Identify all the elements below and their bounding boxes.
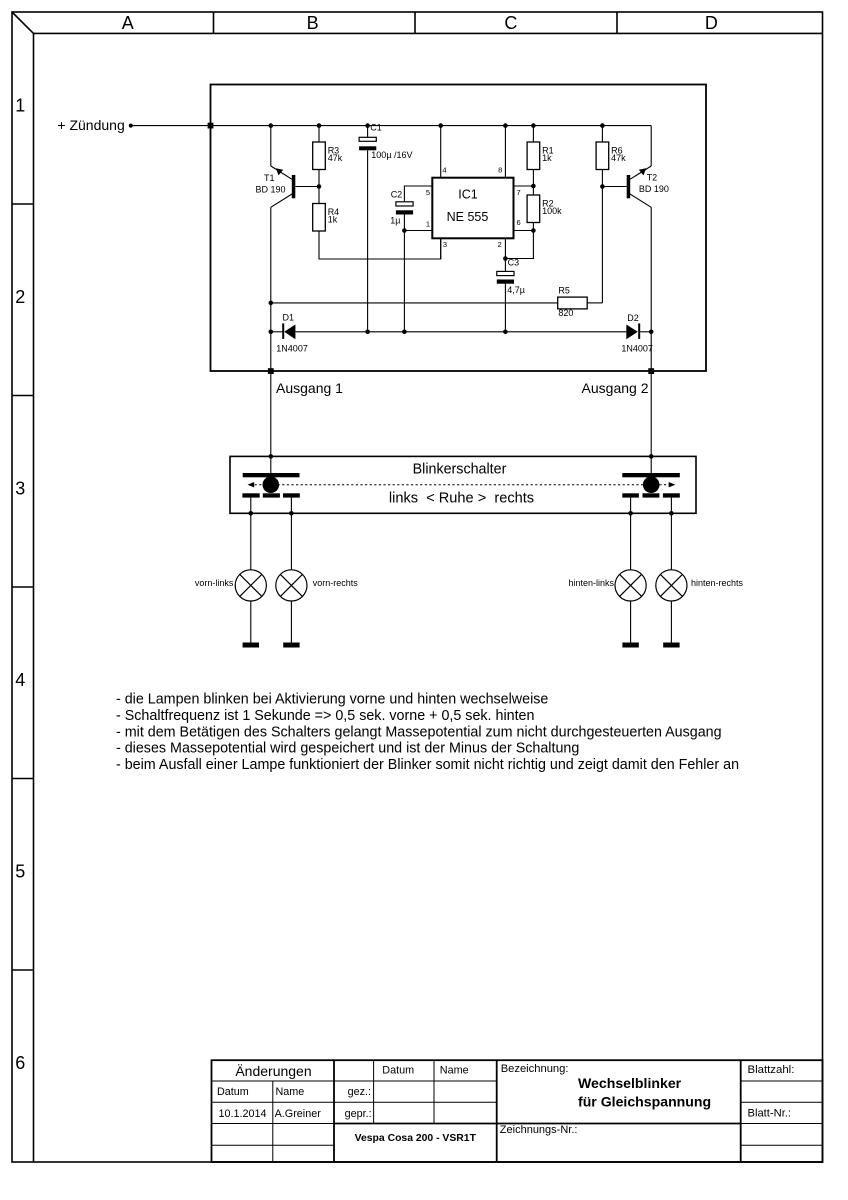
wire lamp2 to ground [290, 601, 292, 643]
resistor R4 [313, 204, 326, 232]
wire pin1 to C2 column [404, 230, 432, 232]
junction dots on ground return rail [269, 330, 654, 335]
lamp hinten-rechts [656, 570, 687, 601]
svg-text:R5: R5 [558, 286, 570, 296]
ground vorn-links [243, 643, 259, 648]
wire lamp4 to ground [670, 601, 672, 643]
svg-text:5: 5 [15, 862, 25, 882]
switch left common contact [243, 456, 300, 493]
wire R5 to T2 base column [587, 302, 602, 304]
diode D2 [626, 323, 640, 339]
svg-text:- dieses Massepotential wird g: - dieses Massepotential wird gespeichert… [116, 741, 579, 757]
svg-text:D: D [705, 13, 718, 33]
wire R4 to pin3 [319, 231, 441, 259]
svg-text:hinten-links: hinten-links [568, 578, 614, 588]
wire rail to R3 [318, 126, 320, 142]
wire switch to lamp vorn-rechts [290, 498, 292, 570]
svg-text:C: C [504, 13, 517, 33]
svg-text:47k: 47k [328, 153, 343, 163]
arrow left (links) [248, 482, 255, 487]
svg-text:1k: 1k [328, 214, 338, 224]
wire R2 bottom to C3 node [505, 223, 533, 259]
junction R5 tap on T1 collector [269, 301, 274, 306]
svg-text:vorn-links: vorn-links [195, 578, 234, 588]
svg-text:hinten-rechts: hinten-rechts [691, 578, 744, 588]
svg-text:8: 8 [498, 165, 502, 174]
svg-text:Name: Name [440, 1065, 469, 1077]
capacitor C2 [396, 186, 432, 332]
svg-text:gepr.:: gepr.: [345, 1108, 372, 1120]
svg-text:1µ: 1µ [390, 215, 400, 225]
wire pin 3 down [440, 238, 442, 259]
arrow right (rechts) [669, 482, 676, 487]
svg-text:für Gleichspannung: für Gleichspannung [578, 1094, 711, 1110]
svg-text:gez.:: gez.: [348, 1086, 371, 1098]
svg-text:- mit dem Betätigen des Schalt: - mit dem Betätigen des Schalters gelang… [116, 724, 722, 740]
svg-text:47k: 47k [611, 153, 626, 163]
svg-text:C2: C2 [391, 190, 403, 200]
svg-text:A: A [122, 13, 134, 33]
svg-text:2: 2 [498, 240, 502, 249]
resistor R3 [313, 142, 326, 170]
svg-text:D1: D1 [283, 312, 295, 322]
wire ground return rail [271, 331, 283, 333]
wire T1 collector down to switch [270, 207, 272, 456]
junction T2 base node [600, 184, 605, 189]
svg-text:Vespa Cosa 200 - VSR1T: Vespa Cosa 200 - VSR1T [355, 1133, 477, 1144]
svg-text:C1: C1 [370, 122, 382, 132]
svg-text:1k: 1k [542, 153, 552, 163]
op-amp/timer IC1 [432, 178, 513, 239]
junction pin1/C2 [402, 228, 407, 233]
svg-text:Datum: Datum [382, 1065, 414, 1077]
junction square Ausgang 2 at box edge [648, 368, 654, 374]
wire supply rail [211, 125, 652, 127]
svg-text:NE 555: NE 555 [447, 210, 489, 224]
junction dots on supply rail [269, 123, 605, 128]
switch right common contact [622, 456, 680, 493]
title block [212, 1060, 823, 1162]
svg-text:1: 1 [15, 95, 25, 115]
svg-text:Ausgang 2: Ausgang 2 [582, 380, 649, 396]
svg-text:vorn-rechts: vorn-rechts [313, 578, 359, 588]
svg-text:100k: 100k [542, 206, 562, 216]
junction dot Ausgang1 at switch box [269, 454, 274, 459]
svg-text:4: 4 [15, 670, 25, 690]
resistor R1 [527, 142, 540, 170]
wire R6 to R5 corner [601, 170, 603, 303]
svg-text:4: 4 [442, 165, 446, 174]
lamp vorn-rechts [276, 570, 307, 601]
wire switch to lamp hinten-links [630, 498, 632, 570]
svg-text:4,7µ: 4,7µ [507, 285, 525, 295]
transistor T2 [602, 126, 651, 208]
switch travel dashed line [250, 484, 673, 486]
switch box Blinkerschalter [230, 456, 696, 513]
svg-text:7: 7 [517, 188, 521, 197]
svg-text:B: B [307, 13, 319, 33]
svg-text:1N4007: 1N4007 [276, 344, 308, 354]
wire pin 4 to rail [440, 126, 442, 178]
lamp hinten-links [615, 570, 646, 601]
svg-text:- die Lampen blinken bei Aktiv: - die Lampen blinken bei Aktivierung vor… [116, 692, 548, 708]
wire switch to lamp hinten-rechts [670, 498, 672, 570]
svg-text:Blatt-Nr.:: Blatt-Nr.: [748, 1107, 792, 1119]
ground vorn-rechts [283, 643, 299, 648]
junction R2/pin6 [531, 228, 536, 233]
notes text [116, 692, 739, 773]
svg-text:Datum: Datum [217, 1086, 249, 1098]
resistor R6 [596, 142, 609, 170]
svg-text:A.Greiner: A.Greiner [275, 1108, 322, 1120]
wire +Zündung to box [131, 125, 211, 127]
svg-text:10.1.2014: 10.1.2014 [219, 1108, 267, 1120]
svg-text:BD 190: BD 190 [639, 184, 669, 194]
svg-text:- beim Ausfall einer Lampe fun: - beim Ausfall einer Lampe funktioniert … [116, 757, 739, 773]
ground hinten-links [622, 643, 638, 648]
transistor T1 [271, 126, 319, 208]
svg-text:Zeichnungs-Nr.:: Zeichnungs-Nr.: [500, 1124, 578, 1136]
junction dot [249, 511, 254, 516]
svg-text:BD 190: BD 190 [256, 185, 286, 195]
junction pin2/R2/C3 [503, 256, 508, 261]
circuit enclosure box [211, 85, 707, 372]
svg-text:Änderungen: Änderungen [235, 1063, 311, 1079]
junction T1 base node [317, 184, 322, 189]
wire R3 to base node [318, 170, 320, 204]
junction dot [669, 511, 674, 516]
wire switch to lamp vorn-links [250, 498, 252, 570]
ground hinten-rechts [663, 643, 679, 648]
wire lamp1 to ground [250, 601, 252, 643]
switch right contacts [622, 493, 680, 497]
svg-text:1: 1 [426, 220, 430, 229]
svg-text:- Schaltfrequenz ist 1 Sekunde: - Schaltfrequenz ist 1 Sekunde => 0,5 se… [116, 708, 534, 724]
svg-text:Bezeichnung:: Bezeichnung: [501, 1063, 569, 1075]
switch left contacts [242, 493, 299, 497]
junction square at box edge [208, 123, 214, 129]
node +Zündung terminal dot [129, 124, 133, 128]
wire pin 7 to R1/R2 [514, 185, 534, 187]
wire rail to R1 [532, 126, 534, 142]
svg-text:100µ /16V: 100µ /16V [371, 150, 412, 160]
wire R5 line from T1 collector [271, 302, 558, 304]
svg-text:T1: T1 [264, 173, 275, 183]
junction dot [628, 511, 633, 516]
svg-text:6: 6 [15, 1053, 25, 1073]
svg-text:links < Ruhe > rechts: links < Ruhe > rechts [389, 491, 534, 507]
svg-text:D2: D2 [627, 313, 639, 323]
wire pin 2 down [504, 238, 506, 258]
svg-text:5: 5 [426, 188, 430, 197]
svg-text:Wechselblinker: Wechselblinker [578, 1075, 682, 1091]
wire T2 collector down to switch [650, 207, 652, 456]
wire pin 8 to rail [504, 126, 506, 178]
resistor R5 [558, 297, 588, 309]
wire lamp3 to ground [630, 601, 632, 643]
svg-text:2: 2 [15, 287, 25, 307]
wire R1 to R2 [532, 170, 534, 196]
svg-text:T2: T2 [647, 173, 658, 183]
svg-text:C3: C3 [508, 258, 520, 268]
capacitor C3 [497, 259, 514, 332]
wire pin 6 to R2 bottom [514, 230, 534, 232]
capacitor C1 [359, 126, 376, 332]
svg-text:Blinkerschalter: Blinkerschalter [413, 461, 507, 477]
junction square Ausgang 1 at box edge [268, 368, 274, 374]
lamp vorn-links [235, 570, 266, 601]
junction dot [289, 511, 294, 516]
junction dot Ausgang2 at switch box [649, 454, 654, 459]
svg-text:820: 820 [558, 308, 573, 318]
svg-text:Ausgang 1: Ausgang 1 [276, 380, 343, 396]
junction R1/R2/pin7 [531, 184, 536, 189]
wire rail to R6 [601, 126, 603, 142]
svg-text:+ Zündung: + Zündung [57, 117, 124, 133]
svg-text:IC1: IC1 [458, 188, 478, 202]
svg-text:1N4007: 1N4007 [621, 344, 653, 354]
svg-text:Name: Name [276, 1086, 305, 1098]
diode D1 [282, 323, 295, 339]
svg-text:6: 6 [517, 218, 521, 227]
svg-text:3: 3 [443, 240, 447, 249]
resistor R2 [527, 195, 540, 223]
svg-text:3: 3 [15, 479, 25, 499]
svg-text:Blattzahl:: Blattzahl: [748, 1064, 795, 1076]
